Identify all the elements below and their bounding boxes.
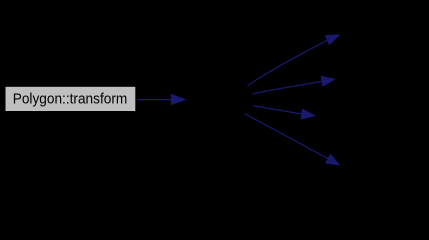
svg-text:Polygon::transform: Polygon::transform — [13, 90, 128, 107]
